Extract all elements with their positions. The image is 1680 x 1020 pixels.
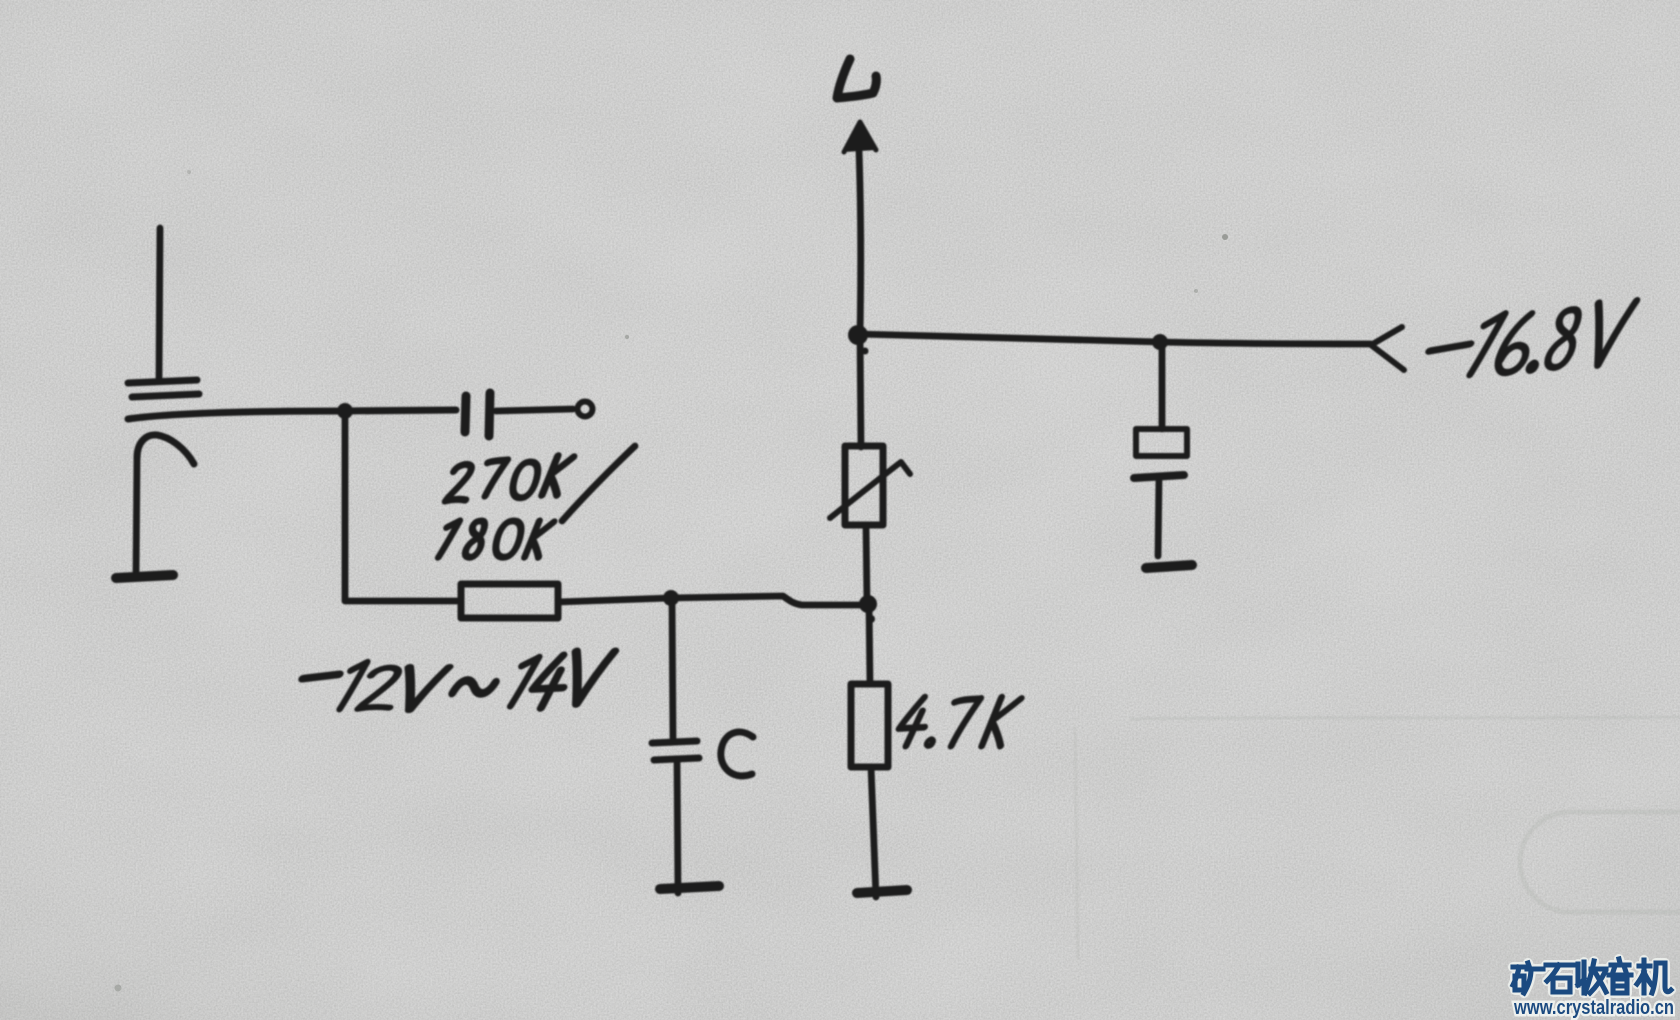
label -16.8V: [1428, 301, 1641, 377]
wire node B to node C: [671, 596, 867, 605]
矿: [1513, 963, 1543, 993]
rheostat diagonal arrow: [830, 462, 910, 518]
top supply wire from node D to -16.8V: [858, 334, 1371, 344]
logo 矿石收音机 white halo: [1513, 959, 1671, 993]
output terminal circle: [578, 402, 593, 417]
node E junction dot: [1152, 334, 1168, 350]
detector whisker hook: [137, 435, 194, 464]
wire resistor left lead: [345, 598, 461, 605]
resistor R 180K/270K body: [461, 584, 558, 618]
detector crystal plate 2: [132, 394, 199, 397]
capacitor C lower lead: [677, 760, 678, 893]
coupling capacitor left plate: [465, 396, 466, 432]
label -12V~14V: [303, 651, 615, 710]
wire from detector to junction A and coupling cap: [128, 410, 456, 419]
音: [1609, 959, 1631, 993]
node B junction dot: [663, 590, 679, 606]
label L: [837, 59, 876, 98]
node A junction dot: [337, 403, 353, 419]
ground (capacitor C): [660, 886, 719, 889]
wire node A down to resistor row: [342, 411, 349, 600]
机: [1637, 960, 1671, 993]
rheostat (variable resistor) body: [845, 446, 883, 525]
resistor 4.7K lower lead: [871, 767, 876, 897]
whisker lead to ground: [136, 458, 137, 575]
capacitor C top plate: [652, 741, 697, 743]
capacitor C bottom plate: [654, 758, 699, 760]
wire cap to output terminal: [496, 409, 573, 411]
wire node C down to resistor 4.7K: [869, 604, 870, 684]
resistor 4.7K body: [851, 684, 888, 767]
rheostat lower lead to node C: [866, 525, 867, 603]
wire resistor right lead to node B: [558, 598, 670, 602]
label C: [721, 732, 753, 776]
filter cap lower lead: [1158, 478, 1159, 556]
wire node D down to rheostat: [860, 335, 861, 447]
coupling capacitor right plate: [489, 393, 490, 436]
capacitor C lead from node B: [672, 598, 673, 739]
slash of 270K/180K: [562, 446, 635, 521]
node D junction dot: [848, 325, 868, 345]
detector top lead wire: [159, 228, 160, 379]
filter cap (electrolytic) upper lead: [1159, 342, 1166, 429]
label 180K: [438, 521, 554, 557]
石: [1546, 965, 1574, 992]
label 270K: [445, 456, 573, 501]
supply arrow head <: [1371, 327, 1404, 370]
detector crystal plate 1: [128, 380, 197, 383]
logo navy strokes: [1513, 959, 1671, 993]
label 4.7K: [895, 697, 1022, 746]
svg-text:www.crystalradio.cn: www.crystalradio.cn: [1513, 997, 1674, 1019]
filter cap negative plate: [1134, 475, 1184, 478]
收: [1578, 961, 1606, 993]
arrow to coil L (head): [844, 122, 876, 152]
filter cap positive plate box: [1136, 429, 1187, 456]
ground (filter cap): [1146, 565, 1192, 568]
node C junction dot: [859, 595, 877, 613]
paper specks: [115, 170, 1229, 992]
ground (detector): [116, 575, 173, 578]
faint ghost impressions bottom right: [1075, 717, 1680, 960]
arrow shaft / wire down to node D: [859, 150, 861, 333]
ground (4.7K): [857, 890, 907, 893]
